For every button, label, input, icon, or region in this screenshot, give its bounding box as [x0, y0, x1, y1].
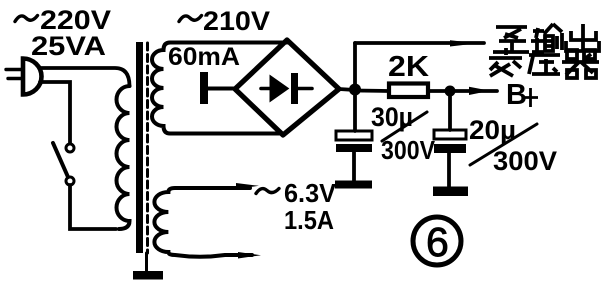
wire plug bottom to switch — [40, 82, 70, 143]
label 300V (C1) — [381, 135, 436, 165]
wire node A down to C1 — [353, 90, 357, 131]
ground (C1) — [335, 181, 372, 189]
label 变压器 (transformer) — [489, 48, 599, 78]
wire ground bar to bridge left vertex — [208, 87, 235, 91]
label 300V (C2) — [493, 146, 557, 176]
ground (core) — [133, 271, 163, 280]
wire plug top to primary winding — [40, 68, 130, 86]
svg-text:6: 6 — [426, 219, 449, 265]
fraction slash C2 — [470, 124, 537, 165]
label B+ — [506, 79, 527, 111]
svg-text:1.5A: 1.5A — [284, 205, 334, 235]
AC plug P1 — [6, 59, 42, 95]
svg-text:B: B — [506, 79, 527, 111]
node B junction dot — [445, 86, 456, 97]
wire node A up — [353, 43, 357, 90]
arrowhead B+ — [469, 87, 490, 95]
wire node B to B+ — [450, 89, 497, 93]
label ~210V — [179, 16, 202, 22]
label 30u — [371, 102, 413, 132]
transformer T1 secondary 210V winding — [152, 43, 287, 134]
label 2K — [388, 51, 429, 83]
bridge rectifier D1 diamond — [235, 40, 339, 135]
wire node B down to C2 — [448, 91, 452, 130]
arrowhead to output transformer — [450, 40, 478, 46]
label 60mA — [168, 43, 240, 71]
arrowhead 6.3V bottom — [238, 252, 261, 259]
switch S1 — [53, 143, 74, 185]
wire bridge output to node A — [339, 89, 355, 90]
label 20u — [469, 115, 516, 145]
svg-text:30µ: 30µ — [371, 102, 413, 132]
transformer T1 primary winding — [117, 86, 130, 229]
wire to output transformer (top) — [355, 41, 484, 45]
label 至输出 (to output) — [493, 24, 599, 52]
arrowhead 6.3V top — [236, 183, 259, 189]
svg-text:60mA: 60mA — [168, 43, 240, 71]
ground (C2) — [433, 187, 468, 197]
svg-text:300V: 300V — [493, 146, 557, 176]
wire C1 to ground — [352, 152, 356, 181]
svg-text:2K: 2K — [388, 51, 429, 83]
capacitor C1 30u bottom plate — [336, 144, 372, 152]
wire node A to resistor — [355, 89, 388, 93]
transformer T1 secondary 6.3V winding — [154, 188, 252, 257]
label ~6.3V — [256, 189, 279, 194]
transformer core — [136, 42, 143, 253]
label ~220V — [15, 16, 38, 22]
capacitor C1 30u top plate — [336, 131, 372, 140]
fraction slash C1 — [382, 112, 427, 141]
svg-text:6.3V: 6.3V — [284, 178, 337, 208]
svg-text:210V: 210V — [203, 6, 270, 36]
svg-text:300V: 300V — [381, 135, 436, 165]
bridge diode symbol — [261, 73, 312, 104]
capacitor C2 20u top plate — [434, 130, 466, 139]
ground (bridge negative), rotated bar — [200, 72, 208, 104]
figure number 6 circle — [413, 217, 461, 265]
label 1.5A — [284, 205, 334, 235]
capacitor C2 20u bottom plate — [434, 144, 466, 153]
transformer core lamination dashed line — [146, 43, 149, 253]
svg-text:25VA: 25VA — [31, 31, 106, 61]
wire resistor to node B — [428, 89, 450, 93]
figure number 6 — [426, 219, 449, 265]
wire C2 to ground — [447, 153, 451, 187]
label 25VA — [31, 31, 106, 61]
node A junction dot — [349, 84, 361, 96]
wire core to ground — [145, 253, 148, 272]
wire switch to primary winding bottom — [70, 185, 116, 229]
resistor R1 2K body — [389, 84, 428, 98]
